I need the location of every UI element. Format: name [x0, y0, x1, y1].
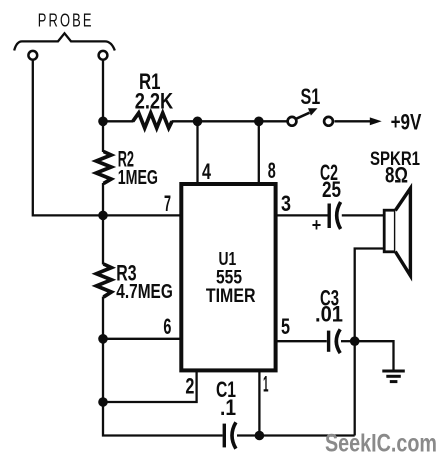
- node: pin 8 junction: [254, 117, 264, 127]
- wire: pin 3 to C2: [276, 214, 328, 216]
- wire: node to ground: [355, 341, 394, 369]
- svg-text:5: 5: [281, 314, 290, 339]
- svg-text:SeekIC.com: SeekIC.com: [325, 430, 437, 458]
- svg-text:+: +: [312, 215, 322, 235]
- switch S1: [288, 108, 333, 125]
- node: pin 1 ground junction: [255, 431, 265, 441]
- wire: pin 6: [103, 338, 181, 340]
- wire: left rail to bottom rail: [103, 402, 223, 436]
- svg-text:3: 3: [281, 191, 291, 216]
- wire: speaker return: [355, 249, 385, 342]
- wire: arrow to +9V: [335, 120, 372, 122]
- node: pin 6 junction: [98, 334, 108, 344]
- wire: bottom rail right segment: [237, 434, 355, 436]
- svg-text:+9V: +9V: [391, 110, 422, 135]
- capacitor C2: [329, 202, 340, 229]
- wire: left rail down: [102, 339, 104, 402]
- resistor R2: [96, 121, 111, 215]
- wire: top rail left segment: [103, 120, 134, 122]
- node: pin 2 junction: [98, 397, 108, 407]
- wire: pin 4 stub: [196, 121, 198, 184]
- svg-text:1: 1: [263, 372, 269, 397]
- svg-text:TIMER: TIMER: [206, 285, 256, 307]
- wire: pin 8 stub: [258, 121, 260, 184]
- svg-text:1MEG: 1MEG: [118, 167, 158, 189]
- probe tip terminal left: [28, 51, 37, 60]
- wire: left probe down and right to pin 7: [33, 60, 181, 215]
- svg-text:.1: .1: [220, 395, 236, 420]
- svg-text:8Ω: 8Ω: [385, 163, 408, 188]
- probe tip terminal right: [99, 51, 108, 60]
- node: C3 speaker ground junction: [350, 336, 360, 346]
- svg-text:8: 8: [268, 158, 276, 183]
- resistor R3: [96, 215, 111, 338]
- node: pin 7 junction: [98, 211, 108, 221]
- probe bracket: [14, 33, 115, 50]
- svg-text:4: 4: [202, 159, 211, 184]
- node: pin 4 junction: [193, 117, 203, 127]
- wire: pin 5 to C3: [276, 340, 327, 342]
- wire: top rail right segment to switch: [172, 120, 288, 122]
- svg-text:S1: S1: [301, 84, 321, 109]
- svg-text:6: 6: [163, 314, 171, 339]
- capacitor C3: [329, 329, 341, 353]
- svg-text:2.2K: 2.2K: [135, 88, 174, 113]
- speaker SPKR1: [384, 188, 410, 275]
- svg-text:25: 25: [322, 177, 341, 202]
- wire: C2 to speaker: [342, 214, 384, 216]
- op-amp U1 555 timer box: [181, 184, 275, 370]
- svg-text:.01: .01: [315, 302, 343, 327]
- svg-text:2: 2: [185, 373, 194, 398]
- resistor R1: [133, 113, 172, 128]
- capacitor C1: [224, 422, 236, 448]
- node: R2 top junction: [98, 117, 108, 127]
- wire: pin 2: [103, 370, 197, 402]
- svg-text:4.7MEG: 4.7MEG: [116, 281, 173, 303]
- svg-text:PROBE: PROBE: [38, 11, 94, 31]
- wire: pin 1 down: [258, 370, 260, 436]
- ground: [382, 371, 405, 382]
- wire: node down to bottom rail: [354, 341, 356, 435]
- wire: right probe down to top rail: [102, 60, 104, 121]
- svg-text:7: 7: [164, 191, 171, 216]
- wire: C3 to node: [341, 340, 355, 342]
